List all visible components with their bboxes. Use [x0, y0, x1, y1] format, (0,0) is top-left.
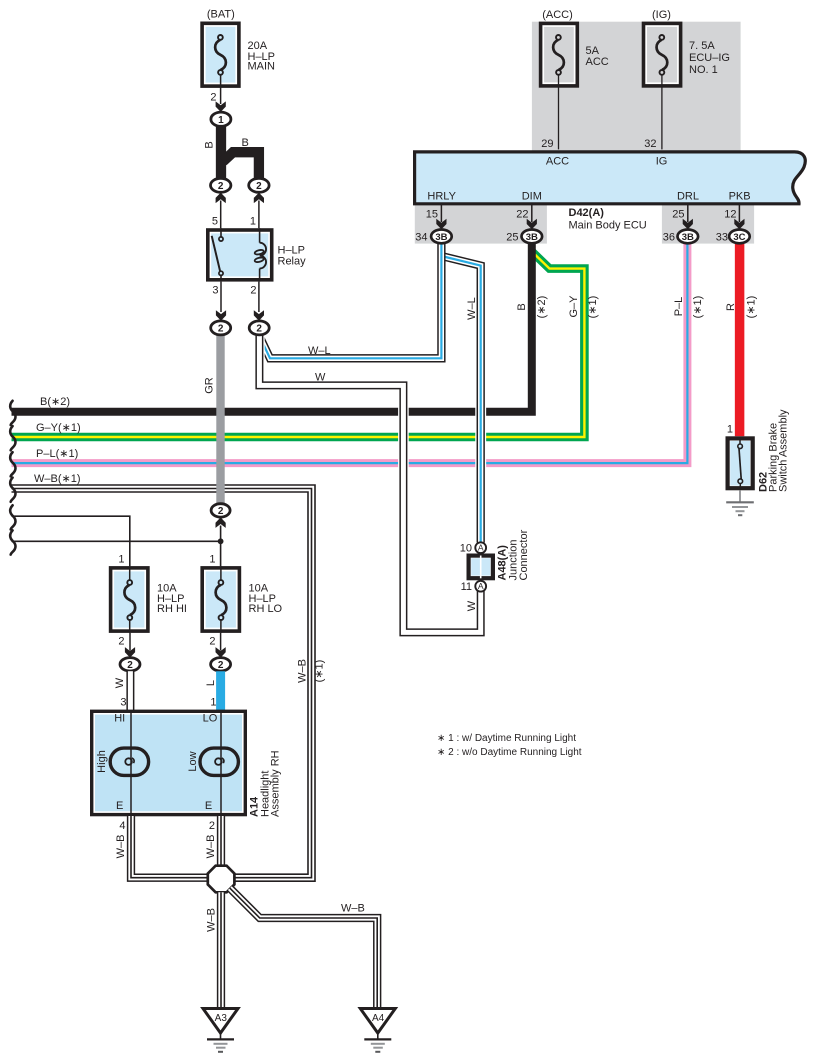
svg-text:W–B: W–B	[115, 835, 127, 859]
wire lead	[220, 620, 222, 633]
svg-text:4: 4	[119, 820, 125, 832]
svg-text:W–L: W–L	[308, 345, 331, 357]
svg-text:10: 10	[460, 543, 472, 555]
svg-text:G–Y(∗1): G–Y(∗1)	[36, 422, 81, 434]
svg-text:ECU–IG: ECU–IG	[689, 52, 730, 64]
svg-text:2: 2	[218, 324, 224, 335]
headlight assembly A14 box	[92, 711, 246, 814]
svg-text:3: 3	[120, 697, 126, 709]
wire lead	[220, 633, 222, 651]
pin 5 lead	[220, 201, 222, 229]
svg-text:RH LO: RH LO	[249, 603, 283, 615]
horizontal harness wires at left	[10, 242, 704, 878]
svg-text:DRL: DRL	[677, 191, 699, 203]
connector oval 36 3B	[678, 230, 699, 244]
svg-text:3B: 3B	[682, 232, 694, 243]
grounds	[203, 866, 395, 1052]
wire W-L from HRLY connector to relay coil	[260, 242, 442, 358]
svg-text:2: 2	[210, 92, 216, 104]
wire lead	[216, 1047, 226, 1049]
pin 2 lead	[258, 282, 260, 312]
svg-text:15: 15	[426, 208, 438, 220]
up arrow below left oval 2	[216, 193, 226, 204]
wire lead	[377, 1033, 379, 1039]
wire W-B from LO E pin to octagon	[217, 816, 225, 866]
svg-text:E: E	[205, 800, 212, 812]
svg-text:A: A	[478, 543, 484, 553]
up arrow below oval	[216, 517, 226, 528]
wire P-L(*1), pink w/ blue stripe, from DRL connector	[12, 242, 688, 463]
connector circle A pin 10	[475, 542, 486, 553]
gray panel under ECU left (HRLY/DIM connectors)	[415, 203, 547, 244]
switch contacts	[739, 439, 741, 445]
svg-text:B: B	[242, 137, 249, 149]
down arrows into ovals	[125, 647, 135, 658]
svg-text:7. 5A: 7. 5A	[689, 40, 715, 52]
svg-text:(ACC): (ACC)	[542, 9, 573, 21]
ECU connector pins row	[415, 204, 749, 244]
svg-text:Assembly RH: Assembly RH	[270, 750, 282, 817]
svg-text:(∗1): (∗1)	[314, 660, 326, 683]
svg-text:2: 2	[118, 636, 124, 648]
connector oval 34 3B	[431, 230, 452, 244]
pin 3 lead	[220, 282, 222, 312]
lead down to RH LO fuse with junction	[220, 526, 222, 567]
svg-text:12: 12	[724, 208, 736, 220]
svg-text:Relay: Relay	[278, 256, 307, 268]
ground stem of D62	[739, 490, 741, 502]
wire pin 2 of fuse	[220, 75, 222, 104]
connector oval 33 3C	[729, 230, 750, 244]
svg-text:R: R	[725, 303, 737, 311]
svg-text:2: 2	[250, 284, 256, 296]
wire R(*1) from PKB connector, red	[735, 242, 745, 436]
svg-text:HI: HI	[114, 713, 125, 725]
svg-text:(IG): (IG)	[652, 9, 671, 21]
svg-text:W: W	[466, 600, 478, 611]
down arrow above oval 2 (pin3)	[216, 310, 226, 321]
svg-text:ACC: ACC	[546, 156, 569, 168]
wire lead	[373, 1047, 383, 1049]
svg-text:(∗1): (∗1)	[587, 296, 599, 319]
svg-text:25: 25	[506, 231, 518, 243]
wire lead	[259, 269, 261, 282]
svg-text:1: 1	[250, 216, 256, 228]
wire lead	[207, 1038, 234, 1040]
svg-text:32: 32	[644, 138, 656, 150]
svg-text:2: 2	[218, 506, 224, 517]
svg-text:LO: LO	[203, 713, 218, 725]
connector circle A pin 11	[475, 581, 486, 592]
svg-text:∗ 1 : w/ Daytime Running Light: ∗ 1 : w/ Daytime Running Light	[437, 733, 576, 744]
fuse 10A H-LP RH HI	[111, 568, 148, 631]
wire lead	[364, 1038, 391, 1040]
svg-text:D42(A): D42(A)	[569, 207, 605, 219]
svg-text:29: 29	[541, 138, 553, 150]
gray panel under ECU right (DRL/PKB connectors)	[662, 203, 754, 244]
connector oval 2 at end of GR wire	[211, 504, 230, 517]
svg-text:A: A	[478, 581, 484, 591]
wire lead	[220, 713, 222, 815]
A48 junction connector box	[469, 556, 493, 579]
svg-text:2: 2	[256, 181, 262, 192]
wire lead	[732, 506, 748, 508]
svg-text:IG: IG	[656, 156, 668, 168]
svg-text:5: 5	[212, 216, 218, 228]
svg-text:1: 1	[118, 554, 124, 566]
relay switch contact	[220, 228, 222, 237]
wire W-B from HI E pin to octagon	[131, 816, 208, 878]
svg-text:A4: A4	[372, 1013, 385, 1024]
wire lead	[220, 275, 222, 281]
svg-text:A3: A3	[215, 1013, 228, 1024]
svg-text:2: 2	[218, 660, 224, 671]
arrow into connector 1	[216, 101, 226, 112]
svg-text:3C: 3C	[733, 232, 745, 243]
wire lead	[129, 620, 131, 633]
svg-text:B(∗2): B(∗2)	[40, 396, 70, 408]
fuse 10A H-LP RH LO	[202, 568, 239, 631]
junction dot	[218, 538, 224, 544]
ground symbol of D62	[726, 501, 754, 503]
svg-text:W–B: W–B	[341, 903, 365, 915]
pin 22 DIM lead	[531, 204, 533, 222]
svg-text:22: 22	[516, 208, 528, 220]
connector oval 2 (below pin 3)	[211, 321, 231, 335]
up arrow below right oval 2	[254, 193, 264, 204]
internal lamp leads	[130, 713, 132, 815]
svg-text:2: 2	[209, 820, 215, 832]
wire W-B(*1), white w/ black stripe, down right side to octagon joint	[12, 489, 312, 878]
wire lead	[220, 1033, 222, 1039]
svg-text:34: 34	[415, 231, 427, 243]
svg-text:2: 2	[218, 181, 224, 192]
svg-text:(BAT): (BAT)	[207, 9, 235, 21]
pin 2 leads below fuses	[129, 633, 131, 651]
junction connector A48	[460, 529, 530, 593]
wire lead	[558, 75, 560, 149]
svg-text:1: 1	[210, 697, 216, 709]
svg-text:GR: GR	[203, 377, 215, 394]
bulb High	[110, 748, 148, 775]
svg-text:Main Body ECU: Main Body ECU	[569, 220, 647, 232]
svg-text:25: 25	[672, 208, 684, 220]
svg-text:DIM: DIM	[522, 191, 542, 203]
relay section	[203, 126, 306, 335]
thick B wire from connector 1 splitting to relay pins 5 and 1	[216, 126, 226, 181]
svg-text:3: 3	[212, 284, 218, 296]
wire W-L branch to A48 junction connector	[441, 256, 480, 543]
svg-text:2: 2	[127, 660, 133, 671]
svg-text:1: 1	[727, 424, 733, 436]
wire lead	[739, 449, 741, 480]
pin 12 PKB lead	[738, 204, 740, 222]
svg-text:36: 36	[663, 231, 675, 243]
wire lead	[214, 1043, 228, 1045]
pin 1 lead	[258, 201, 260, 229]
svg-text:W–B: W–B	[296, 659, 308, 683]
fuse 5A ACC box	[541, 9, 609, 150]
pin 15 HRLY lead	[440, 204, 442, 222]
wire W-B from octagon down to ground A3	[217, 892, 225, 1008]
ground A3	[203, 1009, 238, 1034]
H-LP relay box	[208, 230, 272, 280]
ground A4	[360, 1009, 395, 1034]
octagon junction joint	[208, 866, 235, 893]
svg-text:W: W	[114, 677, 126, 688]
wire lead	[218, 1051, 223, 1053]
svg-text:2: 2	[256, 324, 262, 335]
svg-text:(∗1): (∗1)	[692, 296, 704, 319]
wire W to headlight HI	[126, 671, 134, 712]
svg-text:W: W	[315, 372, 326, 384]
thin wire to RH HI fuse	[12, 516, 130, 566]
svg-text:3B: 3B	[526, 232, 538, 243]
svg-text:B: B	[203, 141, 215, 148]
svg-text:∗ 2 : w/o Daytime Running Ligh: ∗ 2 : w/o Daytime Running Light	[437, 747, 582, 758]
svg-text:P–L(∗1): P–L(∗1)	[36, 448, 78, 460]
wire G-Y(*1), green w/ yellow stripe	[12, 252, 585, 438]
main body ECU band D42(A)	[415, 152, 806, 204]
svg-text:B: B	[516, 303, 528, 310]
wire lead	[739, 484, 741, 489]
svg-text:33: 33	[716, 231, 728, 243]
svg-text:NO. 1: NO. 1	[689, 64, 718, 76]
lower fuses and headlight	[92, 504, 283, 878]
down arrow above oval 2 (pin2)	[254, 310, 264, 321]
wire W-B diagonal from octagon to ground A4	[230, 888, 377, 1008]
svg-text:W–B: W–B	[205, 835, 217, 859]
svg-text:W–B: W–B	[206, 908, 218, 932]
connector oval 25 3B	[522, 230, 543, 244]
wire lead	[480, 556, 482, 579]
connector oval 2 (below pin 2)	[249, 321, 269, 335]
fuse 7.5A ECU-IG box	[644, 9, 730, 150]
svg-text:High: High	[96, 750, 108, 773]
bulb Low	[200, 748, 238, 775]
svg-text:P–L: P–L	[673, 297, 685, 317]
wire L (blue) to headlight LO	[216, 671, 225, 712]
pin 25 DRL lead	[687, 204, 689, 222]
wire lead	[129, 566, 131, 580]
D62 box	[728, 438, 753, 488]
thin wire to junction under relay	[12, 540, 221, 542]
svg-text:E: E	[116, 800, 123, 812]
connector oval 1	[211, 112, 231, 126]
svg-text:RH HI: RH HI	[157, 603, 187, 615]
wire lead	[212, 236, 221, 272]
svg-text:W–B(∗1): W–B(∗1)	[34, 473, 81, 485]
wire GR from relay pin 3 down	[216, 333, 224, 505]
svg-text:11: 11	[461, 581, 472, 593]
wire B(*2) from DIM connector, black	[12, 242, 532, 412]
wire lead	[661, 75, 663, 149]
svg-text:3B: 3B	[435, 232, 447, 243]
svg-text:ACC: ACC	[586, 56, 609, 68]
connector oval 2 (left)	[211, 178, 231, 192]
connector ovals 2	[120, 658, 140, 671]
relay coil	[259, 228, 261, 243]
svg-text:L: L	[205, 680, 217, 686]
svg-text:1: 1	[209, 554, 215, 566]
gray panel top (behind ACC/IG fuses)	[532, 22, 741, 151]
parking brake switch D62	[726, 409, 789, 515]
svg-text:MAIN: MAIN	[248, 61, 276, 73]
svg-text:1: 1	[218, 115, 224, 126]
wire lead	[371, 1043, 385, 1045]
svg-text:Low: Low	[187, 751, 199, 771]
svg-text:(∗1): (∗1)	[746, 296, 758, 319]
wire lead	[736, 510, 745, 512]
svg-text:Switch Assembly: Switch Assembly	[778, 409, 790, 492]
wire lead	[220, 566, 222, 580]
break squiggles at left edge	[10, 401, 15, 555]
svg-text:(∗2): (∗2)	[536, 296, 548, 319]
wire W from relay to A48 pin 11	[259, 333, 480, 632]
fuse 20A H-LP MAIN box	[202, 9, 275, 127]
svg-text:Connector: Connector	[518, 529, 530, 580]
svg-text:G–Y: G–Y	[568, 295, 580, 318]
wire lead	[375, 1051, 380, 1053]
svg-text:HRLY: HRLY	[427, 191, 456, 203]
svg-text:2: 2	[209, 636, 215, 648]
svg-text:W–L: W–L	[466, 297, 478, 320]
vertical wires from ECU	[203, 242, 757, 632]
svg-text:PKB: PKB	[729, 191, 751, 203]
wire lead	[738, 514, 742, 516]
connector oval 2 (right)	[249, 178, 269, 192]
